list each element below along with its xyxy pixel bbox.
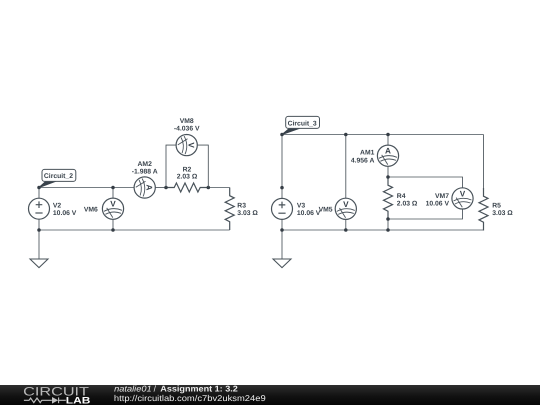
svg-text:VM5: VM5 [319, 206, 333, 213]
svg-text:3.03 Ω: 3.03 Ω [237, 210, 258, 217]
wire top rail left: node to AM2 [39, 187, 134, 189]
voltage source V3 [272, 198, 293, 219]
label R4 value [397, 193, 418, 207]
svg-text:10.06 V: 10.06 V [426, 200, 450, 207]
logo wire with resistor and diode [24, 397, 66, 403]
svg-text:A: A [385, 147, 391, 156]
svg-text:Circuit_3: Circuit_3 [288, 120, 317, 127]
svg-text:natalie01: natalie01 [114, 383, 151, 393]
label V2 value [53, 203, 77, 217]
svg-text:V: V [110, 200, 116, 209]
svg-text:R4: R4 [397, 193, 406, 200]
label R3 value [237, 203, 258, 217]
svg-text:2.03 Ω: 2.03 Ω [397, 200, 418, 207]
wire ground stub [281, 230, 283, 259]
voltmeter VM6 [102, 198, 123, 219]
svg-text:V2: V2 [53, 203, 62, 210]
svg-text:LAB: LAB [66, 396, 91, 405]
svg-text:3.03 Ω: 3.03 Ω [492, 210, 513, 217]
label AM2 value [132, 161, 158, 175]
svg-text:10.06 V: 10.06 V [297, 210, 321, 217]
node V2 bottom dot [37, 228, 41, 232]
wire VM7 bottom branch [388, 209, 463, 219]
resistor R5 [479, 188, 488, 231]
svg-text:R2: R2 [183, 166, 192, 173]
svg-text:AM1: AM1 [360, 149, 375, 156]
svg-text:-4.036 V: -4.036 V [174, 126, 200, 133]
svg-text:4.956 A: 4.956 A [351, 158, 375, 165]
node junction R2 left [164, 186, 168, 190]
wire top rail: AM2 to R2 left junction [155, 187, 166, 189]
footer bar [0, 385, 540, 405]
svg-text:VM6: VM6 [84, 206, 98, 213]
voltage source V2 [29, 198, 50, 219]
wire V2 stubs [38, 188, 40, 231]
node VM5 top dot [344, 133, 348, 137]
svg-text:2.03 Ω: 2.03 Ω [177, 174, 198, 181]
ground [273, 259, 291, 268]
node junction R2 right [207, 186, 211, 190]
resistor R3 [225, 188, 234, 231]
label VM8 value [174, 118, 200, 133]
node VM6 bottom dot [111, 228, 115, 232]
wire VM5 bottom [345, 219, 347, 230]
wire VM5 top [345, 135, 347, 199]
resistor R4 [384, 177, 393, 220]
svg-text:V3: V3 [297, 203, 306, 210]
node V2 top with dot [37, 186, 41, 190]
svg-text:R5: R5 [492, 203, 501, 210]
svg-text:http://circuitlab.com/c7bv2uks: http://circuitlab.com/c7bv2uksm24e9 [114, 393, 266, 403]
label VM7 value [426, 193, 450, 207]
node R4 top dot [386, 175, 390, 179]
voltmeter VM8 [176, 135, 197, 156]
wire V3 bottom stub [281, 219, 283, 230]
wire bottom rail [39, 229, 230, 231]
wire top rail [282, 134, 484, 136]
resistor R2 [166, 183, 209, 192]
ground [30, 259, 48, 268]
wire AM1 bottom stub [387, 166, 389, 177]
svg-text:VM7: VM7 [435, 193, 449, 200]
label R2 value [177, 166, 198, 180]
label AM1 value [351, 149, 375, 164]
svg-text:V: V [187, 142, 196, 148]
node top-left dot [280, 133, 284, 137]
logo diode triangle [52, 397, 58, 404]
node V3 top dot [280, 186, 284, 190]
label R5 value [492, 203, 513, 217]
wire VM6 stubs [112, 188, 114, 231]
svg-text:Assignment 1: 3.2: Assignment 1: 3.2 [160, 383, 238, 393]
wire VM7 top branch [388, 177, 463, 188]
svg-text:R3: R3 [237, 203, 246, 210]
node VM5 bottom dot [344, 228, 348, 232]
svg-text:10.06 V: 10.06 V [53, 210, 77, 217]
svg-text:AM2: AM2 [138, 161, 153, 168]
wire R5 top lead [483, 135, 485, 189]
svg-text:Circuit_2: Circuit_2 [44, 173, 73, 180]
label V3 value [297, 203, 321, 217]
wire VM8 loop left [166, 145, 176, 187]
wire left rail [281, 135, 283, 199]
svg-text:V: V [343, 200, 349, 209]
flag Circuit_3 [282, 116, 320, 134]
svg-text:V: V [460, 189, 466, 198]
ammeter AM2 [134, 177, 155, 198]
node AM1 top dot [386, 133, 390, 137]
wire VM8 loop right [197, 145, 208, 187]
svg-text:A: A [145, 185, 154, 191]
node R4 rail dot [386, 228, 390, 232]
svg-text:VM8: VM8 [180, 118, 194, 125]
wire top rail: R2 right junction to R3 corner [208, 187, 229, 189]
wire AM1 top stub [387, 135, 389, 146]
node R4 bottom dot [386, 217, 390, 221]
flag Circuit_2 [39, 169, 76, 187]
svg-text:-1.988 A: -1.988 A [132, 169, 158, 176]
voltmeter VM5 [335, 198, 356, 219]
ammeter AM1 [377, 145, 398, 166]
wire ground stub [38, 230, 40, 259]
node V3 bottom dot [280, 228, 284, 232]
node VM6 top dot [111, 186, 115, 190]
wire R4 bottom to rail [387, 219, 389, 230]
wire bottom rail [282, 229, 484, 231]
voltmeter VM7 [452, 188, 473, 209]
